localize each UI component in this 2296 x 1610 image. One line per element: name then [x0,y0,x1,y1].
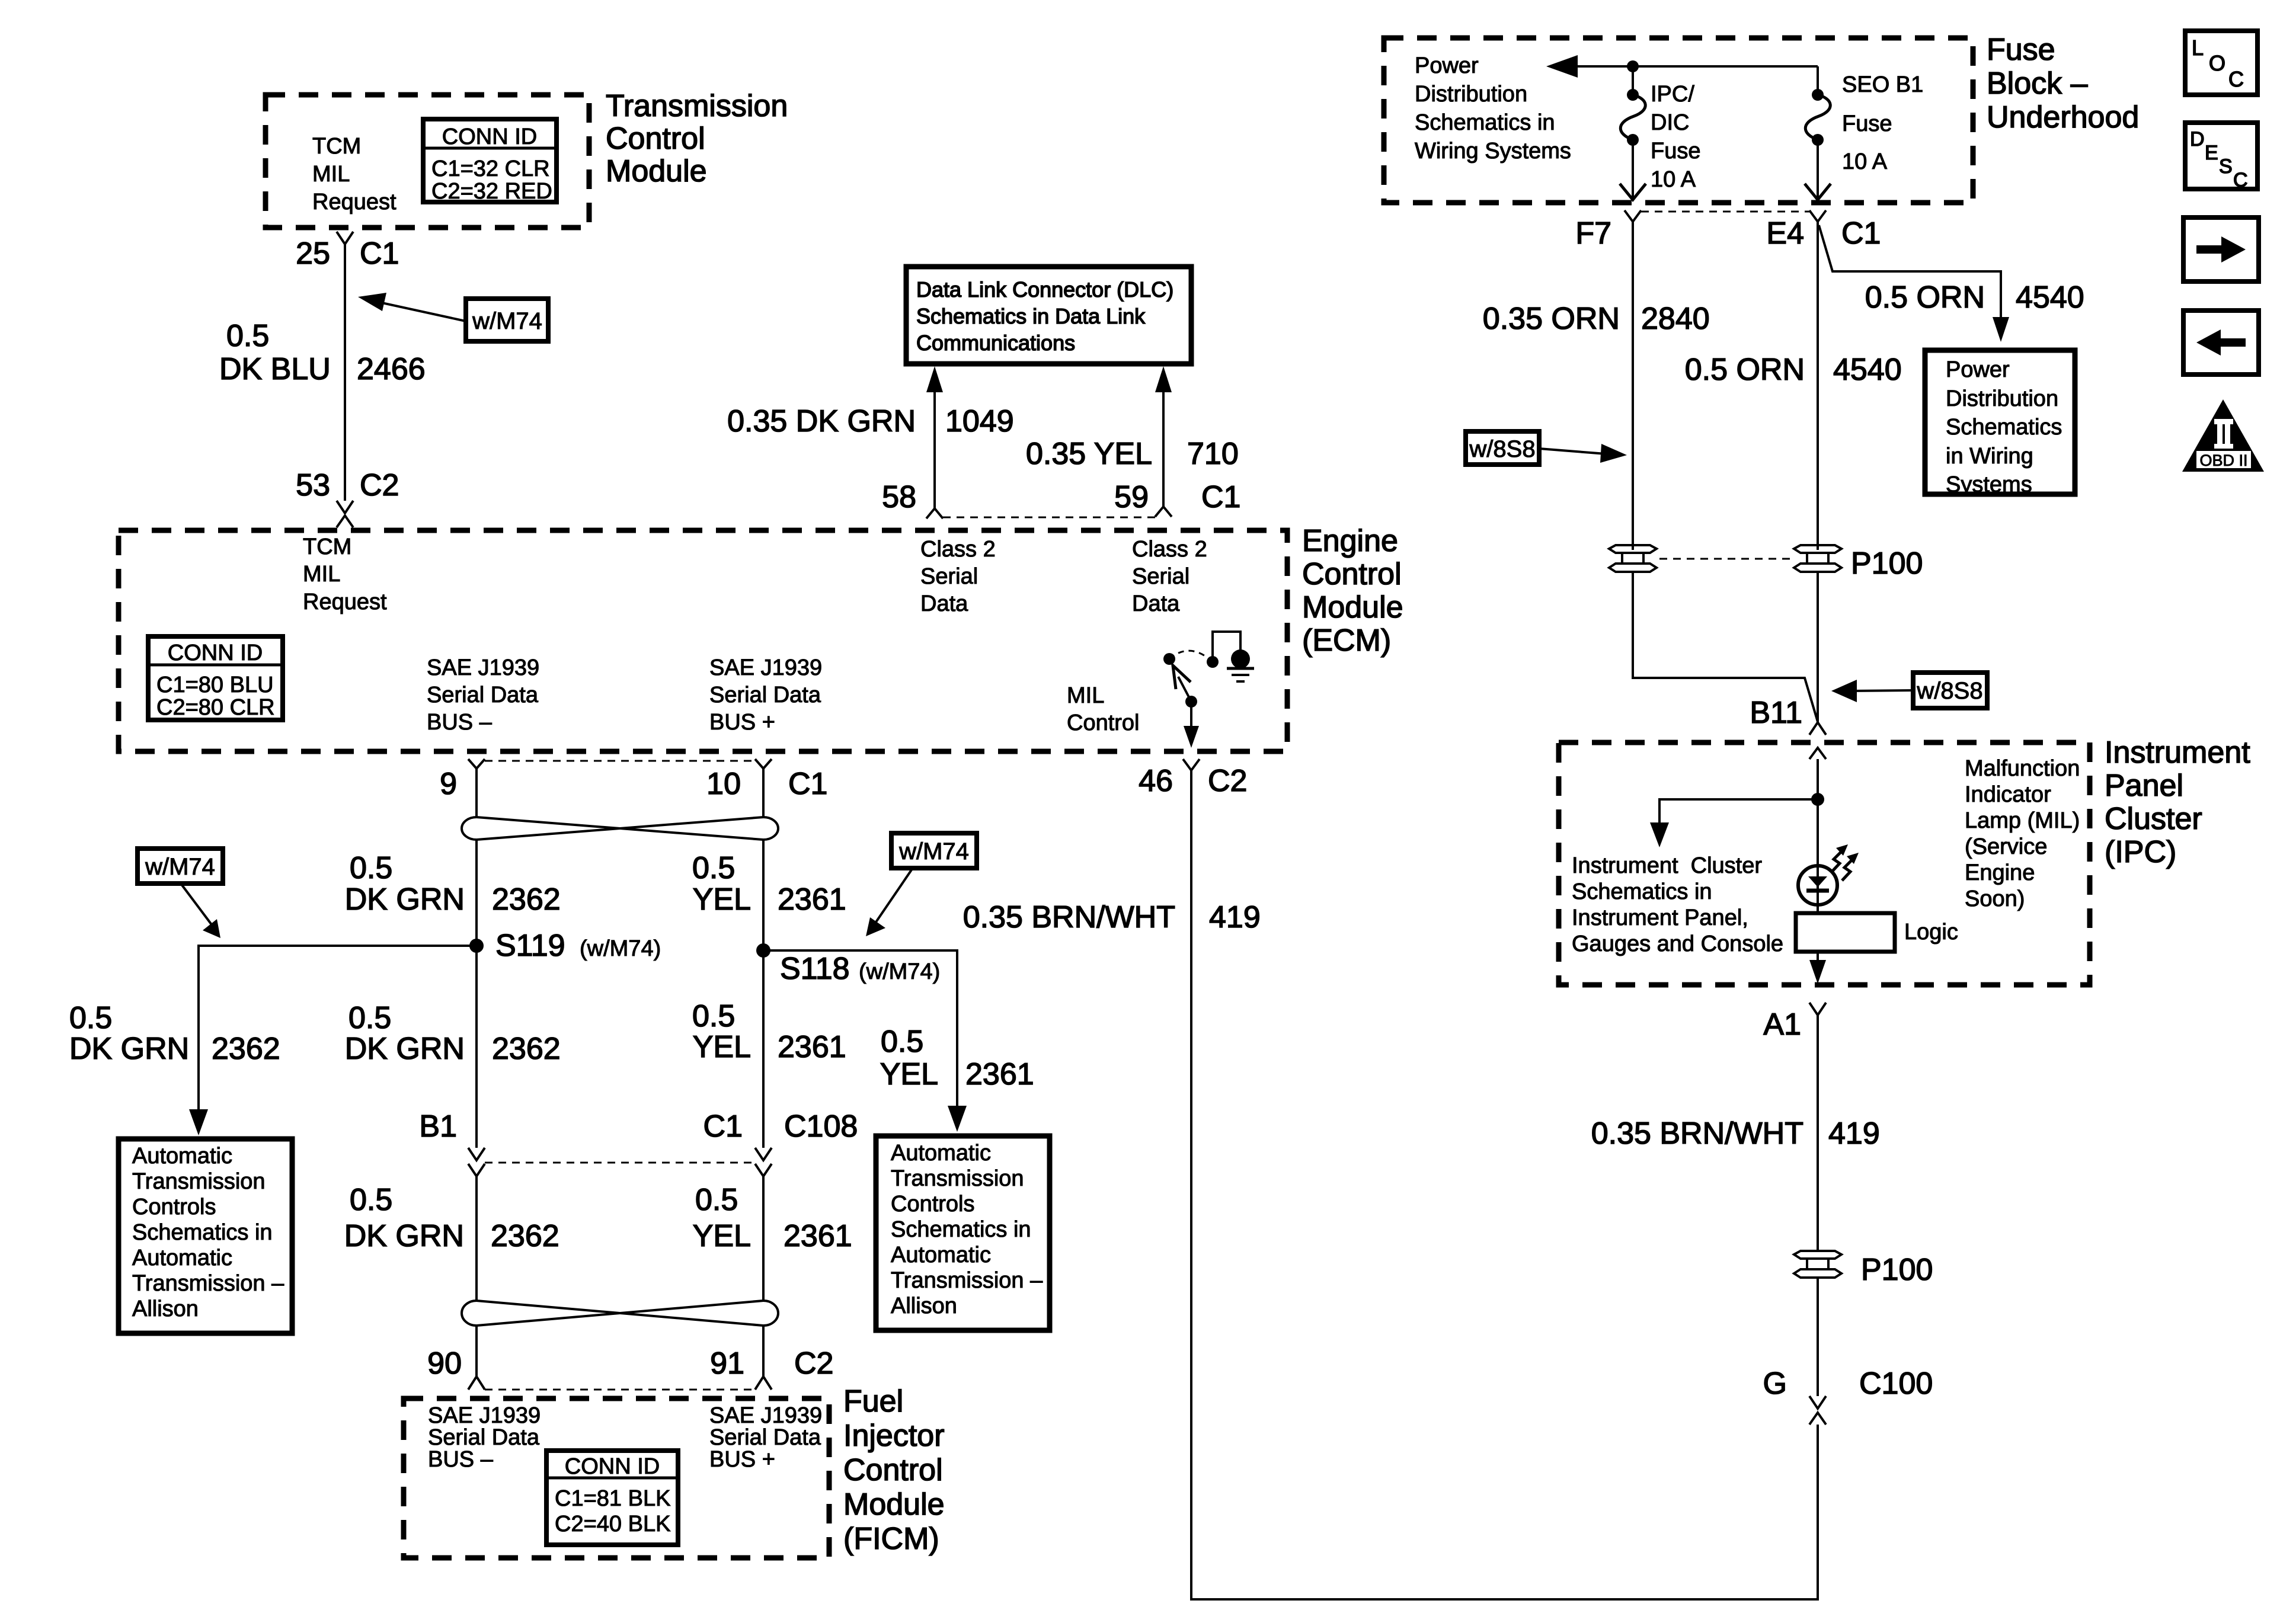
module U1 Transmission Control Module (TCM) dashed box [266,95,589,228]
svg-text:(w/M74): (w/M74) [859,959,940,984]
value label 0.35 BRN/WHT 419 (right) [1591,1116,1880,1151]
svg-text:0.5: 0.5 [692,851,735,885]
label S119 (w/M74) [495,929,661,963]
svg-text:Indicator: Indicator [1965,782,2051,807]
svg-text:Instrument Panel,: Instrument Panel, [1572,905,1748,930]
svg-text:Control: Control [1067,710,1140,735]
svg-text:Distribution: Distribution [1946,386,2058,411]
svg-text:G: G [1763,1366,1787,1401]
pin 58 (ECM C1) [882,480,943,518]
wire BUS+ segment to S118 [762,840,765,1148]
svg-text:Injector: Injector [843,1419,945,1453]
value label 0.5 YEL 2361 (above S118) [692,851,846,917]
wire BUS- segment to S119 [475,840,478,1148]
svg-text:9: 9 [440,767,457,801]
svg-text:DK GRN: DK GRN [344,1219,464,1253]
svg-text:(IPC): (IPC) [2105,835,2176,869]
svg-text:w/M74: w/M74 [145,854,215,880]
value label 0.35 ORN 2840 [1483,302,1710,336]
svg-text:Malfunction: Malfunction [1965,756,2080,781]
wire Class 2 serial data 1049 to DLC with arrow [926,366,943,508]
svg-text:0.5: 0.5 [692,999,735,1033]
text Malfunction Indicator Lamp (MIL) (Service Engine Soon) [1965,756,2080,911]
svg-text:C2=40 BLK: C2=40 BLK [555,1512,670,1537]
svg-text:DK BLU: DK BLU [219,352,331,386]
LED light emission arrows [1831,844,1859,881]
svg-text:710: 710 [1187,437,1239,471]
svg-text:C100: C100 [1859,1366,1933,1401]
svg-text:Serial Data: Serial Data [427,683,539,708]
svg-text:Gauges and Console: Gauges and Console [1572,932,1783,956]
connector grouping dashed line F7-E4 [1641,211,1809,213]
twisted pair symbol (lower) [462,1301,778,1326]
svg-text:2361: 2361 [965,1057,1034,1092]
svg-text:Serial Data: Serial Data [709,1425,821,1450]
pin B11 (IPC) [1750,696,1826,759]
svg-text:Distribution: Distribution [1415,82,1527,107]
svg-text:Communications: Communications [916,331,1075,355]
connector grouping dashed line 9-10 [485,760,755,762]
svg-text:Serial: Serial [1132,564,1189,589]
connector grouping dashed line C108 [485,1162,755,1164]
svg-text:IPC/: IPC/ [1651,82,1694,107]
svg-text:D: D [2190,128,2205,151]
svg-text:2361: 2361 [778,1030,846,1064]
svg-text:in Wiring: in Wiring [1946,444,2033,469]
svg-text:Request: Request [303,590,387,614]
svg-text:Schematics in Data Link: Schematics in Data Link [916,304,1146,328]
svg-text:0.5: 0.5 [695,1183,738,1217]
wire 2840 below P100 joining B11 [1633,572,1818,722]
svg-text:0.5 ORN: 0.5 ORN [1685,353,1805,387]
wire BUS+ segment below C108 [762,1176,765,1301]
svg-text:C2=80 CLR: C2=80 CLR [156,695,275,720]
wire fuse F2 output with down arrow [1805,140,1831,200]
splice S119 junction dot [469,939,484,953]
svg-text:BUS –: BUS – [427,710,493,735]
svg-text:w/M74: w/M74 [898,838,969,865]
svg-text:Data Link Connector (DLC): Data Link Connector (DLC) [916,277,1173,302]
svg-text:w/8S8: w/8S8 [1469,436,1535,462]
svg-text:Controls: Controls [891,1192,975,1217]
svg-text:C1: C1 [1841,216,1881,251]
svg-text:B1: B1 [419,1109,457,1144]
svg-text:DIC: DIC [1651,110,1689,135]
svg-text:C1=32 CLR: C1=32 CLR [431,156,550,181]
fuse F2 SEO B1 Fuse 10 A [1805,72,1923,174]
svg-text:Request: Request [312,190,396,215]
wire Class 2 serial data 710 to DLC with arrow [1155,366,1172,507]
svg-text:25: 25 [296,236,330,271]
icon arrow left [2183,311,2259,375]
svg-text:Fuse: Fuse [1842,111,1892,136]
flag w/8S8 pointing to wire 2840 [1466,431,1627,465]
svg-text:0.35 YEL: 0.35 YEL [1026,437,1152,471]
svg-text:MIL: MIL [1067,683,1104,708]
svg-text:58: 58 [882,480,916,514]
wire branch from S119 to Allison schematic arrow [189,946,477,1135]
svg-text:2361: 2361 [784,1219,852,1253]
svg-text:E: E [2205,142,2218,164]
svg-text:L: L [2192,36,2204,60]
svg-text:MIL: MIL [312,162,350,187]
wire 419 BRN/WHT from A1 down [1817,1015,1819,1251]
fuse F1 IPC/DIC Fuse 10 A [1620,82,1700,192]
svg-text:SAE J1939: SAE J1939 [709,655,822,680]
svg-text:Underhood: Underhood [1987,100,2139,135]
svg-text:Allison: Allison [891,1294,957,1318]
svg-text:90: 90 [427,1346,462,1381]
svg-text:Module: Module [606,154,707,188]
wire branch from S118 to Allison schematic arrow [763,950,967,1132]
svg-text:Data: Data [1132,591,1180,616]
svg-text:Class 2: Class 2 [1132,537,1207,562]
svg-text:Fuel: Fuel [843,1384,903,1419]
svg-text:DK GRN: DK GRN [345,882,465,917]
svg-text:53: 53 [296,468,330,502]
svg-text:Control: Control [606,121,705,156]
reference box Automatic Transmission Controls (right) [876,1136,1050,1330]
svg-text:(Service: (Service [1965,834,2047,859]
connector C108: pin C1 label [703,1109,858,1176]
svg-text:Control: Control [1302,557,1402,591]
svg-text:(FICM): (FICM) [843,1522,939,1556]
svg-text:Transmission: Transmission [606,89,788,123]
svg-text:S118: S118 [780,952,850,986]
wire fuse F1 output with down arrow [1620,140,1646,200]
svg-text:2362: 2362 [491,1219,559,1253]
svg-text:Wiring Systems: Wiring Systems [1415,139,1571,164]
wire 419 from C100 down and to ECM pin 46 [1191,770,1818,1599]
svg-text:Block –: Block – [1987,66,2088,101]
svg-text:Control: Control [843,1453,943,1487]
flag w/M74 pointing to S118 [866,833,977,936]
svg-text:0.5: 0.5 [69,1001,112,1035]
svg-text:CONN ID: CONN ID [168,641,263,665]
MIL driver switch inside ECM with ground [1163,632,1250,668]
svg-text:Module: Module [1302,590,1403,625]
connector C108: pin B1 [419,1109,485,1176]
svg-text:0.5: 0.5 [226,319,269,353]
inline connector P100 (left pass-through) [1609,545,1657,572]
svg-text:(ECM): (ECM) [1302,623,1391,658]
svg-text:Module: Module [843,1487,945,1522]
logic block (IPC) [1796,913,1958,952]
svg-text:91: 91 [710,1346,744,1381]
svg-text:2362: 2362 [492,1032,561,1066]
table CONN ID (TCM) C1=32 CLR C2=32 RED [423,119,557,204]
svg-text:S119: S119 [495,929,565,963]
value label 0.5 ORN 4540 (main) [1685,353,1902,387]
svg-text:Transmission: Transmission [891,1166,1024,1191]
svg-text:F7: F7 [1575,216,1611,251]
connector grouping dashed line P100 [1659,558,1791,560]
svg-text:Power: Power [1415,53,1479,78]
wire to FICM pin 91 [762,1326,765,1376]
value label 0.5 YEL 2361 (below C108) [693,1183,852,1253]
svg-text:10 A: 10 A [1842,149,1888,174]
pin E4 C1 (fuse block) [1766,210,1881,251]
pin 25 C1 (TCM) [296,232,399,271]
wire logic to pin A1 with arrow [1809,952,1826,984]
svg-text:w/8S8: w/8S8 [1916,678,1982,704]
svg-text:C: C [2228,67,2244,91]
svg-text:Schematics in: Schematics in [1572,879,1712,904]
svg-text:E4: E4 [1766,216,1804,251]
svg-text:59: 59 [1114,480,1149,514]
value label 0.5 DK GRN 2362 (left branch) [69,1001,280,1066]
wire branch to instrument cluster schematics with arrow [1650,799,1818,847]
svg-text:0.5: 0.5 [881,1025,923,1059]
svg-text:Transmission –: Transmission – [132,1271,284,1296]
wire MIL control to pin 46 with arrow [1184,702,1199,748]
reference box Power Distribution Schematics in Wiring Systems [1925,350,2075,497]
svg-text:C2: C2 [794,1346,833,1381]
svg-text:S: S [2219,155,2233,178]
wire BUS- segment below C108 [475,1176,478,1301]
svg-text:C108: C108 [784,1109,858,1144]
svg-text:YEL: YEL [693,882,751,917]
flag w/M74 pointing to wire 2466 [358,293,548,341]
svg-text:0.5: 0.5 [350,851,392,885]
svg-text:10 A: 10 A [1651,167,1696,192]
table CONN ID (ECM) C1=80 BLU C2=80 CLR [148,636,283,720]
value label 0.5 DK BLU 2466 [219,319,426,386]
svg-text:Serial Data: Serial Data [428,1425,540,1450]
pin A1 (IPC) [1763,1003,1826,1042]
svg-text:Power: Power [1946,357,2010,382]
lamp DS1 MIL LED symbol [1798,864,1837,913]
text Instrument Cluster Schematics in Instrument Panel, Gauges and Console [1572,853,1783,956]
wire 2840 ORN from F7 down [1632,222,1634,550]
svg-text:C2: C2 [360,468,399,502]
svg-text:OBD II: OBD II [2199,452,2247,469]
flag w/8S8 pointing to B11 wire [1831,673,1987,708]
pin 90 (FICM) [427,1346,485,1390]
wire feed bus in fuse block with left arrow [1546,55,1818,93]
svg-text:SAE J1939: SAE J1939 [428,1403,541,1428]
module U2 Engine Control Module (ECM) dashed box [119,530,1287,751]
value label 0.5 DK GRN 2362 (below C108) [344,1183,559,1253]
ground symbol (ECM MIL driver) [1227,668,1254,681]
node junction dot (IPC branch) [1811,793,1824,806]
svg-text:TCM: TCM [303,534,351,559]
table CONN ID (FICM) C1=81 BLK C2=40 BLK [546,1451,678,1545]
svg-text:Controls: Controls [132,1195,216,1219]
svg-text:BUS –: BUS – [428,1447,494,1472]
flag w/M74 pointing to S119 branch [137,849,223,938]
svg-text:Panel: Panel [2105,769,2183,803]
svg-text:Serial: Serial [920,564,978,589]
svg-text:C1: C1 [1201,480,1240,514]
module U4 Instrument Panel Cluster (IPC) dashed box [1559,742,2090,985]
inline connector P100 (lower pass-through) [1794,1251,1933,1287]
icon LOC [2185,31,2257,95]
svg-text:Systems: Systems [1946,472,2032,497]
svg-text:BUS +: BUS + [709,1447,775,1472]
value label 0.5 DK GRN 2362 (above S119) [345,851,561,917]
svg-text:1049: 1049 [945,404,1014,438]
svg-text:Engine: Engine [1965,860,2035,885]
svg-text:MIL: MIL [303,562,340,587]
icon arrow right [2183,217,2259,281]
svg-text:Schematics in: Schematics in [891,1217,1031,1242]
svg-text:Automatic: Automatic [132,1246,232,1270]
wire 4540 ORN from E4 down [1817,222,1819,550]
svg-text:Data: Data [920,591,968,616]
svg-text:Transmission: Transmission [132,1169,266,1194]
svg-text:Instrument: Instrument [2105,735,2250,770]
pin G C100 (inline connector) [1763,1366,1933,1425]
svg-text:C2=32 RED: C2=32 RED [431,179,552,204]
svg-text:2840: 2840 [1641,302,1710,336]
svg-text:Lamp (MIL): Lamp (MIL) [1965,808,2080,833]
connector grouping dashed line 90-91 [485,1389,755,1391]
wire 4540 below P100 to B11 [1817,572,1819,722]
value label 0.5 DK GRN 2362 (below S119) [345,1001,561,1066]
svg-text:419: 419 [1209,900,1261,934]
svg-text:Automatic: Automatic [132,1144,232,1169]
wire 2466 DK BLU from TCM 25 to ECM 53 [344,244,346,501]
svg-text:0.35 BRN/WHT: 0.35 BRN/WHT [963,900,1175,934]
svg-text:DK GRN: DK GRN [69,1032,189,1066]
svg-text:SAE J1939: SAE J1939 [427,655,539,680]
svg-text:CONN ID: CONN ID [565,1454,660,1479]
svg-text:Cluster: Cluster [2105,802,2202,836]
svg-text:0.5: 0.5 [348,1001,391,1035]
pin 53 C2 (ECM) [296,468,399,527]
svg-text:4540: 4540 [2016,280,2084,315]
pin 91 C2 (FICM) [710,1346,833,1390]
value label 0.5 YEL 2361 (S118 branch) [880,1025,1034,1092]
svg-text:SEO B1: SEO B1 [1842,72,1923,97]
svg-text:O: O [2209,51,2225,75]
svg-text:YEL: YEL [693,1030,751,1064]
svg-text:Soon): Soon) [1965,886,2025,911]
svg-text:0.5: 0.5 [350,1183,392,1217]
svg-text:C1: C1 [788,767,827,801]
svg-text:Engine: Engine [1302,524,1398,558]
value label 0.35 YEL 710 [1026,437,1239,471]
svg-text:0.35 DK GRN: 0.35 DK GRN [727,404,916,438]
wire below P100 to C100 [1817,1278,1819,1396]
svg-text:C1: C1 [360,236,399,271]
pin F7 (fuse block) [1575,210,1641,251]
icon OBD II triangle [2182,399,2264,472]
svg-text:10: 10 [706,767,741,801]
svg-text:Allison: Allison [132,1297,199,1321]
svg-text:YEL: YEL [693,1219,751,1253]
icon DESC [2185,123,2257,191]
value label 0.5 ORN 4540 (branch) [1865,280,2084,315]
svg-text:Logic: Logic [1904,920,1958,945]
twisted pair symbol (upper) [462,817,778,840]
wire to FICM pin 90 [475,1326,478,1376]
svg-text:CONN ID: CONN ID [442,124,537,149]
svg-text:2362: 2362 [492,882,561,917]
svg-text:Transmission –: Transmission – [891,1268,1043,1293]
pin 9 (ECM C1) [440,759,485,817]
module Fuse Block - Underhood dashed box [1384,38,1973,203]
svg-text:Class 2: Class 2 [920,537,996,562]
label S118 (w/M74) [780,952,940,986]
svg-text:Fuse: Fuse [1987,33,2055,67]
switch arm with arrow (MIL control) [1173,665,1197,708]
svg-text:4540: 4540 [1833,353,1902,387]
svg-text:0.35 ORN: 0.35 ORN [1483,302,1620,336]
svg-text:46: 46 [1139,764,1173,798]
svg-text:SAE J1939: SAE J1939 [709,1403,822,1428]
svg-text:2362: 2362 [212,1032,280,1066]
pin 10 C1 (ECM) [706,759,827,817]
svg-text:Schematics: Schematics [1946,415,2062,440]
svg-text:C1=80 BLU: C1=80 BLU [156,673,274,697]
reference box Data Link Connector (DLC) [906,267,1191,364]
connector grouping dashed line 58-59 [943,517,1155,518]
svg-text:YEL: YEL [880,1057,938,1092]
svg-text:Instrument Cluster: Instrument Cluster [1572,853,1762,878]
svg-text:A1: A1 [1763,1007,1801,1042]
wire branch 4540 ORN to Power Distribution with arrow [1819,225,2009,342]
value label 0.35 BRN/WHT 419 (left) [963,900,1261,934]
reference box Automatic Transmission Controls (left) [119,1139,292,1333]
value label 0.5 YEL 2361 (below S118) [692,999,846,1064]
svg-text:Fuse: Fuse [1651,139,1700,164]
splice S118 junction dot [756,943,770,958]
wire B11 to MIL lamp [1817,759,1819,869]
svg-text:C2: C2 [1208,764,1247,798]
svg-text:DK GRN: DK GRN [345,1032,465,1066]
svg-text:TCM: TCM [312,134,361,159]
svg-text:C1: C1 [703,1109,743,1144]
svg-text:2361: 2361 [778,882,846,917]
svg-text:0.35 BRN/WHT: 0.35 BRN/WHT [1591,1116,1803,1151]
svg-text:0.5 ORN: 0.5 ORN [1865,280,1985,315]
pin 59 C1 (ECM) [1114,480,1240,517]
pin 46 C2 (ECM) [1139,759,1247,798]
svg-text:Schematics in: Schematics in [132,1220,273,1245]
node junction dot on feed bus [1627,60,1639,72]
svg-text:Schematics in: Schematics in [1415,110,1555,135]
svg-text:Serial Data: Serial Data [709,683,821,708]
svg-text:Automatic: Automatic [891,1141,991,1166]
svg-text:Automatic: Automatic [891,1243,991,1267]
svg-text:w/M74: w/M74 [472,308,542,334]
module U3 Fuel Injector Control Module (FICM) dashed box [404,1398,829,1558]
svg-text:C: C [2233,169,2248,191]
inline connector P100 (right pass-through) [1794,545,1841,572]
svg-text:419: 419 [1828,1116,1880,1151]
value label 0.35 DK GRN 1049 [727,404,1014,438]
svg-text:(w/M74): (w/M74) [580,936,661,961]
svg-text:P100: P100 [1851,546,1923,581]
svg-text:2466: 2466 [357,352,426,386]
svg-text:P100: P100 [1861,1253,1933,1287]
svg-text:C1=81 BLK: C1=81 BLK [555,1486,670,1511]
svg-text:BUS +: BUS + [709,710,775,735]
svg-text:B11: B11 [1750,696,1802,730]
